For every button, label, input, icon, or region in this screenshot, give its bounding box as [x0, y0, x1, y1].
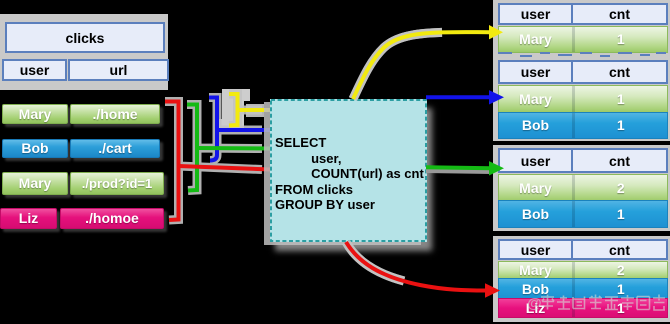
wire blue into box [217, 128, 271, 132]
row 1: Mary ./home [2, 104, 68, 124]
watermark [527, 293, 665, 313]
wire red curve to table4 [346, 242, 486, 291]
header cell url [68, 59, 169, 81]
arrowhead red [485, 283, 500, 297]
source table container (clicks) [0, 14, 168, 90]
halo of red curve [346, 242, 404, 281]
residual white patch behind yellow bracket [216, 89, 250, 131]
arrowhead yellow [489, 25, 503, 39]
row 2: Bob ./cart [2, 139, 68, 158]
t1 header row (user | cnt) [498, 3, 668, 25]
arrowhead blue [489, 90, 504, 104]
t1 bottom torn row hint [496, 51, 668, 59]
t3 row Bob 1 [498, 200, 668, 228]
t2 row Mary 1 [498, 85, 668, 113]
t3 header row (user | cnt) [498, 148, 668, 173]
SQL text [275, 135, 424, 213]
wire green to table3 [426, 171, 492, 172]
SQL query box [270, 99, 427, 242]
t4 row Liz 1 [498, 298, 668, 318]
row 3: Mary ./prod?id=1 [2, 172, 68, 195]
result table 1 [493, 0, 670, 59]
result table 2 [493, 57, 670, 141]
wire yellow into box [238, 108, 272, 112]
t4 row Mary 2 [498, 261, 668, 281]
wire green into box [197, 146, 271, 151]
arrowhead green [489, 161, 504, 175]
wire yellow curve to table1 [353, 32, 491, 99]
wire blue to table2 [426, 95, 490, 99]
t3 row Mary 2 [498, 174, 668, 202]
t4 header row (user | cnt) [498, 239, 668, 260]
t2 row Bob 1 [498, 112, 668, 139]
clicks title cell [5, 22, 165, 53]
wire blue bracket [209, 98, 217, 161]
result table 4 [493, 236, 670, 322]
halo of yellow curve [353, 32, 442, 99]
wire red bracket [165, 102, 179, 221]
wire red into box [179, 166, 272, 170]
wire green bracket [187, 105, 197, 191]
gray halos behind strokes [165, 32, 442, 281]
t1 row Mary 1 [498, 26, 668, 53]
result table 3 [493, 145, 670, 231]
svg-text:@: @ [527, 295, 542, 312]
t4 row Bob 1 [498, 278, 668, 300]
header cell user [2, 59, 67, 81]
wire yellow bracket [229, 94, 238, 126]
row 4: Liz ./homoe [0, 208, 57, 229]
SQL box dashed border [270, 99, 427, 242]
t2 header row (user | cnt) [498, 60, 668, 84]
